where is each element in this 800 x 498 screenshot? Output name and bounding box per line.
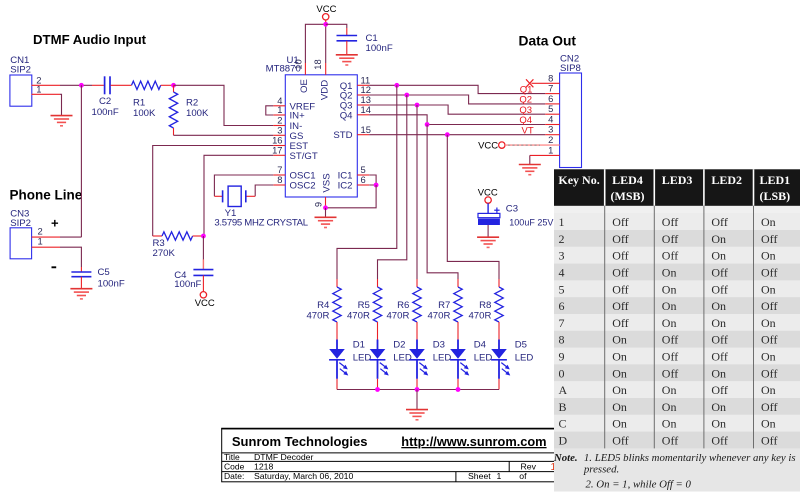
ground at VSS — [315, 217, 337, 227]
wire VCC to VDD pin18 — [325, 24, 327, 63]
resistor R6 470R — [386, 279, 421, 340]
wire Q2 drop to R5 — [378, 95, 407, 279]
svg-text:2. On = 1, while Off = 0: 2. On = 1, while Off = 0 — [586, 478, 692, 490]
svg-text:Off: Off — [761, 232, 777, 246]
wire Q2 from U1 to CN2 — [369, 95, 545, 104]
wire EST to R3 — [153, 146, 274, 237]
connector CN1 SIP2 — [10, 55, 60, 106]
svg-text:Off: Off — [662, 232, 678, 246]
svg-text:On: On — [662, 400, 677, 414]
svg-text:B: B — [559, 400, 567, 414]
resistor R8 470R — [468, 279, 503, 340]
svg-text:On: On — [612, 333, 627, 347]
wire node down to C4 — [202, 236, 204, 260]
LED D5 — [491, 340, 533, 390]
svg-text:On: On — [711, 249, 726, 263]
wire IC1-IC2 bracket — [369, 175, 376, 185]
wire Q4 drop to R7 — [427, 125, 458, 280]
junction IC2 — [374, 183, 379, 188]
svg-text:Off: Off — [761, 434, 777, 448]
svg-text:Off: Off — [612, 434, 628, 448]
svg-text:On: On — [761, 350, 776, 364]
svg-text:On: On — [612, 350, 627, 364]
svg-text:Off: Off — [662, 350, 678, 364]
svg-text:On: On — [761, 383, 776, 397]
junction rail D2 — [375, 387, 380, 392]
svg-text:4: 4 — [559, 266, 565, 280]
junction rail D4 — [456, 387, 461, 392]
wire R2 bottom to IC GS — [174, 134, 274, 136]
svg-text:Off: Off — [711, 383, 727, 397]
ground below C1 — [336, 55, 358, 65]
svg-text:Off: Off — [612, 299, 628, 313]
wire node B to IC IN- — [174, 85, 274, 125]
svg-text:On: On — [662, 299, 677, 313]
wire CN3 pin1 to C5 — [60, 247, 81, 267]
svg-text:On: On — [711, 400, 726, 414]
svg-text:0: 0 — [559, 366, 565, 380]
svg-text:Off: Off — [711, 282, 727, 296]
svg-text:Off: Off — [612, 316, 628, 330]
svg-text:Note.: Note. — [553, 452, 578, 464]
svg-text:5: 5 — [559, 282, 565, 296]
svg-text:1. LED5 blinks momentarily whe: 1. LED5 blinks momentarily whenever any … — [584, 452, 796, 464]
connector CN2 SIP8 — [548, 54, 581, 168]
svg-text:Off: Off — [612, 249, 628, 263]
svg-text:Off: Off — [711, 266, 727, 280]
junction Q3 — [415, 103, 420, 108]
LED D2 — [370, 340, 412, 390]
wire VREF to IN+ bracket — [266, 106, 274, 115]
svg-text:On: On — [612, 366, 627, 380]
svg-text:Off: Off — [662, 434, 678, 448]
wire OSC1 to crystal — [214, 175, 273, 196]
wire VSS node to ground — [325, 208, 327, 217]
svg-text:On: On — [761, 215, 776, 229]
capacitor C4 100nF — [174, 259, 213, 291]
wire CN3 pin2 to node A vertical — [60, 236, 81, 238]
wire CN1 pin1 to ground — [60, 94, 62, 115]
resistor R5 470R — [347, 279, 382, 340]
capacitor C3 100uF electrolytic — [478, 203, 553, 236]
op-amp U1 MT8870 DTMF decoder IC — [266, 55, 371, 208]
junction Q4 — [425, 122, 430, 127]
resistor R3 270K — [153, 232, 204, 259]
svg-text:Off: Off — [662, 215, 678, 229]
junction R3/STGT/C4 — [201, 234, 206, 239]
svg-text:On: On — [711, 417, 726, 431]
svg-text:Off: Off — [761, 333, 777, 347]
resistor R2 100K — [169, 85, 209, 135]
capacitor C5 100nF — [71, 267, 124, 289]
wire node A down to CN3 pin2 — [80, 85, 82, 237]
capacitor C1 100nF — [337, 28, 393, 54]
svg-text:On: On — [612, 383, 627, 397]
svg-text:(LSB): (LSB) — [759, 189, 790, 203]
svg-text:On: On — [761, 417, 776, 431]
svg-text:1: 1 — [559, 215, 565, 229]
svg-text:8: 8 — [559, 333, 565, 347]
resistor R7 470R — [427, 279, 462, 340]
svg-text:(MSB): (MSB) — [611, 189, 645, 203]
junction STD — [445, 132, 450, 137]
svg-text:On: On — [662, 417, 677, 431]
svg-text:Off: Off — [761, 400, 777, 414]
svg-text:On: On — [612, 400, 627, 414]
wire LED cathode rail — [337, 389, 499, 391]
svg-text:Off: Off — [711, 350, 727, 364]
svg-text:Off: Off — [662, 333, 678, 347]
junction VSS — [323, 205, 328, 210]
svg-text:2: 2 — [559, 232, 565, 246]
no-connect X at CN2 pin8 — [532, 82, 560, 84]
wire Q1 from U1 to CN2 — [369, 85, 545, 93]
LED D4 — [450, 340, 492, 390]
minus label — [52, 266, 57, 268]
svg-text:A: A — [559, 383, 568, 397]
svg-text:On: On — [662, 282, 677, 296]
LED D3 — [409, 340, 451, 390]
svg-text:Off: Off — [612, 215, 628, 229]
svg-text:Off: Off — [761, 266, 777, 280]
wire CN2 pin1 to ground — [530, 154, 560, 156]
svg-text:LED1: LED1 — [759, 173, 790, 187]
svg-text:Off: Off — [612, 282, 628, 296]
svg-text:9: 9 — [559, 350, 565, 364]
svg-text:7: 7 — [559, 316, 565, 330]
wire rail to ground — [416, 390, 418, 410]
ground at CN2 pin1 — [519, 165, 541, 175]
wire CN1 pin2 to node — [60, 84, 92, 86]
svg-text:On: On — [761, 249, 776, 263]
svg-text:On: On — [761, 282, 776, 296]
ground at CN1 pin1 — [51, 116, 73, 126]
svg-text:On: On — [711, 366, 726, 380]
connector CN3 SIP2 — [10, 209, 60, 259]
svg-text:On: On — [711, 316, 726, 330]
power VCC at U1 — [316, 4, 336, 24]
svg-text:LED4: LED4 — [612, 173, 643, 187]
ground below LEDs — [406, 410, 428, 420]
ground below C5 — [70, 289, 92, 299]
wire STD drop to R8 — [447, 135, 499, 279]
svg-text:Off: Off — [612, 232, 628, 246]
wire STD/VT from U1 to CN2 — [369, 134, 545, 136]
svg-text:On: On — [612, 417, 627, 431]
crystal Y1 3.5795 MHZ — [214, 186, 308, 229]
junction rail D3 — [415, 387, 420, 392]
svg-text:Off: Off — [761, 299, 777, 313]
svg-text:On: On — [711, 299, 726, 313]
wire Q4 from U1 to CN2 — [369, 115, 545, 125]
svg-text:On: On — [662, 383, 677, 397]
wire ST/GT down to R3 node — [204, 155, 273, 236]
svg-text:LED2: LED2 — [711, 173, 742, 187]
svg-text:3: 3 — [559, 249, 565, 263]
svg-text:pressed.: pressed. — [583, 464, 619, 476]
resistor R4 470R — [306, 279, 341, 340]
svg-text:Off: Off — [761, 366, 777, 380]
svg-text:On: On — [761, 316, 776, 330]
svg-text:Off: Off — [662, 249, 678, 263]
wire OSC2 to crystal — [255, 185, 273, 196]
node B junction (R1/R2) — [171, 83, 176, 88]
wire IC2 node to VSS — [326, 185, 377, 208]
svg-text:Off: Off — [711, 215, 727, 229]
ground below C3 — [477, 237, 499, 247]
wire Q3 drop to R6 — [416, 105, 418, 279]
svg-text:D: D — [559, 434, 568, 448]
svg-text:C: C — [559, 417, 567, 431]
svg-text:On: On — [662, 266, 677, 280]
capacitor C2 100nF — [92, 76, 132, 118]
svg-text:LED3: LED3 — [662, 173, 693, 187]
svg-text:Off: Off — [711, 333, 727, 347]
svg-text:Key No.: Key No. — [558, 173, 599, 187]
svg-text:On: On — [662, 316, 677, 330]
junction Q1 — [394, 83, 399, 88]
resistor R1 100K — [132, 81, 174, 119]
power VCC at C3 — [478, 187, 498, 203]
wire Q1 drop to R4 — [337, 85, 397, 279]
node A junction (audio input) — [79, 83, 84, 88]
svg-text:Off: Off — [612, 266, 628, 280]
svg-text:Off: Off — [662, 366, 678, 380]
svg-text:6: 6 — [559, 299, 565, 313]
wire VCC to C1 — [326, 24, 347, 28]
junction at VCC node — [323, 22, 328, 27]
junction Q2 — [404, 93, 409, 98]
svg-text:On: On — [711, 232, 726, 246]
svg-text:Off: Off — [711, 434, 727, 448]
power VCC to CN2 pin2 — [478, 140, 559, 151]
wire Q3 from U1 to CN2 — [369, 105, 545, 114]
pin stubs CN2 — [545, 93, 559, 95]
wire VCC to OE pin10 — [305, 24, 325, 63]
LED D1 — [329, 340, 371, 390]
power VCC below C4 — [195, 292, 215, 309]
